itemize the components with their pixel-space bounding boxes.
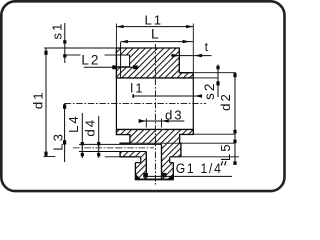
cavity side walls	[115, 78, 117, 129]
neck outer walls	[140, 157, 142, 163]
spout bottom face	[135, 178, 174, 180]
svg-text:d1: d1	[31, 90, 46, 109]
spout neck hatched walls	[141, 157, 147, 163]
dimension L2	[81, 53, 139, 70]
vertical centerline	[154, 44, 156, 185]
spout chamfers	[135, 174, 141, 180]
svg-text:L4: L4	[66, 114, 81, 133]
svg-text:L2: L2	[81, 53, 100, 68]
svg-text:t: t	[205, 40, 210, 54]
svg-text:L: L	[151, 26, 161, 41]
side-port centerline	[73, 147, 154, 149]
dimension s2	[179, 65, 236, 100]
svg-text:G1 1/4: G1 1/4	[176, 160, 223, 176]
dimension l1	[130, 80, 202, 98]
spout collar hatched walls	[135, 163, 146, 180]
svg-text:d4: d4	[83, 118, 98, 137]
d2 / L5 extension lines	[193, 133, 235, 135]
bottom face segments near spout	[135, 156, 140, 158]
horizontal centerline (cavity axis)	[65, 102, 206, 104]
dimension s1	[44, 22, 179, 63]
dimension L4	[66, 113, 84, 158]
bottom face extension segments	[44, 156, 56, 158]
dimension d1	[31, 48, 48, 157]
port bottom line	[79, 151, 146, 153]
svg-text:s1: s1	[50, 22, 65, 40]
bore walls	[145, 152, 147, 180]
dimension t	[171, 40, 212, 58]
bore white	[146, 144, 161, 179]
dimension L3	[50, 103, 66, 162]
dimension d2 and L5 shared dimension line	[218, 73, 237, 165]
top flange hatched section	[116, 48, 193, 78]
dimension L1	[116, 13, 193, 73]
svg-text:s2: s2	[202, 82, 217, 100]
top flange groove edges	[117, 55, 129, 67]
svg-text:d2: d2	[218, 92, 233, 111]
bottom flange outline	[116, 129, 193, 156]
bottom flange hatched body	[116, 129, 193, 156]
svg-text:L5: L5	[218, 142, 233, 161]
port centerline overdraw	[116, 147, 154, 149]
thread callout G1 1/4 with leader	[143, 160, 232, 177]
top flange groove (white)	[117, 55, 129, 67]
port/bore top line	[79, 143, 162, 145]
collar step	[135, 162, 140, 164]
dimension L	[121, 26, 194, 78]
top flange outline	[116, 48, 193, 78]
centerline overdraw (bore)	[154, 140, 156, 185]
svg-text:L3: L3	[50, 132, 65, 151]
dimension d4	[83, 116, 101, 158]
border frame	[1, 1, 284, 191]
svg-text:d3: d3	[165, 107, 184, 122]
svg-text:l1: l1	[130, 80, 144, 95]
dimension d3	[139, 107, 185, 127]
collar outer walls	[134, 163, 136, 180]
